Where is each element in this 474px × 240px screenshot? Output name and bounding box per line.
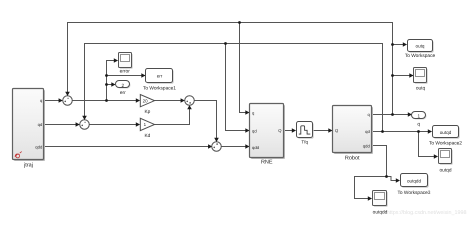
sum1 <box>63 96 73 106</box>
junction error to workspace branch <box>105 74 108 77</box>
arrow into Robot <box>328 128 332 133</box>
wire qd feedback loop <box>85 44 383 132</box>
svg-text:outqd: outqd <box>440 130 452 135</box>
arrow into gain Kd <box>136 122 140 127</box>
outport 1 q oval <box>412 112 427 128</box>
wire error tap vertical <box>107 61 118 101</box>
svg-text:To Workspace3: To Workspace3 <box>398 190 431 196</box>
svg-text:err: err <box>120 91 126 96</box>
svg-text:q: q <box>417 123 420 128</box>
Tfq pulse icon <box>299 126 311 134</box>
svg-text:error: error <box>120 70 131 75</box>
wire Robot qd out to To Workspace2 <box>372 131 432 133</box>
wire sum4 out to RNE qdd <box>221 146 249 148</box>
arrow into sum3 left <box>181 98 185 103</box>
junction robot qdd output <box>385 175 388 178</box>
sum4 <box>212 142 222 152</box>
arrow into gain Kp <box>136 98 140 103</box>
junction error to outport branch <box>105 83 108 86</box>
svg-text:Kp: Kp <box>144 109 150 115</box>
junction q-feedback to outq workspace branch <box>391 43 394 46</box>
arrow into RNE qdd <box>245 144 249 149</box>
arrow into outqd scope <box>434 154 438 159</box>
outqd scope <box>439 149 453 174</box>
svg-text:outqdd: outqdd <box>373 210 388 216</box>
svg-text:jtraj: jtraj <box>23 162 33 168</box>
wire branch to outq To Workspace <box>393 44 407 46</box>
svg-text:2: 2 <box>121 83 124 88</box>
svg-text:qd: qd <box>38 122 43 127</box>
gain Kp <box>140 95 154 116</box>
svg-text:https://blog.csdn.net/weixin_1: https://blog.csdn.net/weixin_1998 <box>387 210 467 216</box>
arrow into sum2 left <box>76 122 80 127</box>
Robot block <box>333 106 372 153</box>
arrow into sum2 top <box>82 116 87 120</box>
arrow into error scope <box>114 58 118 63</box>
sum3 <box>185 96 195 106</box>
outport 2 err oval <box>116 81 131 96</box>
Tfq block <box>298 123 314 139</box>
svg-text:Robot: Robot <box>345 156 360 162</box>
svg-text:qdd: qdd <box>35 145 43 150</box>
wire sum3 out to sum4 top <box>194 101 216 142</box>
wire jtraj qdd to sum4 <box>44 146 212 148</box>
junction q-feedback to RNE q branch <box>238 21 241 24</box>
arrow into To Workspace3 <box>396 178 400 183</box>
svg-text:err: err <box>157 74 163 79</box>
svg-text:qd: qd <box>365 129 370 134</box>
arrow into sum1 left <box>59 98 63 103</box>
wire sum2 out to Kd <box>89 124 139 126</box>
svg-text:To Workspace1: To Workspace1 <box>143 85 176 91</box>
arrow into outport 1 <box>408 112 412 117</box>
Robot block shadow <box>334 107 373 154</box>
arrow into Tfq <box>292 128 296 133</box>
svg-text:20: 20 <box>143 98 148 103</box>
svg-text:Tfq: Tfq <box>301 140 308 145</box>
junction qd to outqd scope branch <box>417 130 420 133</box>
jtraj block <box>13 89 44 160</box>
To Workspace1 block <box>147 70 174 84</box>
gain Kd <box>140 118 154 139</box>
arrowheads <box>59 42 438 201</box>
sum2 <box>80 120 90 130</box>
svg-text:qdd: qdd <box>363 144 371 149</box>
RNE block <box>250 104 284 158</box>
wire branch feedback qd to RNE qd input <box>226 44 250 131</box>
wire Kd out to sum3 bottom <box>155 106 190 125</box>
svg-text:outqdd: outqdd <box>407 179 421 184</box>
arrow into RNE q <box>245 110 249 115</box>
wire Kp out to sum3 <box>155 100 185 102</box>
junction robot q output <box>391 113 394 116</box>
svg-text:outqd: outqd <box>439 168 451 174</box>
jtraj red logo <box>15 152 22 158</box>
svg-text:Kd: Kd <box>144 133 150 139</box>
wire error to outport err <box>107 84 115 86</box>
arrow into sum4 left <box>208 144 212 149</box>
junction error signal tap <box>105 99 108 102</box>
wire jtraj qd to sum2 <box>44 124 79 126</box>
wire RNE Q out to Tfq <box>284 130 296 132</box>
wire qdd to To Workspace3 <box>387 177 400 181</box>
outqd To Workspace2 block <box>434 127 460 139</box>
wire q feedback top loop <box>68 23 393 115</box>
svg-text:1: 1 <box>417 114 420 119</box>
outq To Workspace block <box>409 41 434 53</box>
arrow into outq scope <box>409 73 413 78</box>
jtraj block shadow <box>14 90 45 161</box>
wire branch to outq scope <box>393 75 414 77</box>
arrow into RNE qd <box>245 128 249 133</box>
svg-text:outq: outq <box>416 86 426 92</box>
outqdd scope <box>373 191 388 216</box>
junction q-feedback to outq scope branch <box>391 74 394 77</box>
wire sum1 out to Kp <box>72 100 139 102</box>
svg-text:outq: outq <box>416 44 425 49</box>
RNE block shadow <box>251 105 285 159</box>
junction qd-feedback to RNE qd branch <box>224 42 227 45</box>
svg-text:To Workspace2: To Workspace2 <box>429 141 462 147</box>
arrow into sum4 top <box>214 138 219 142</box>
svg-text:qd: qd <box>252 129 257 134</box>
error scope <box>119 53 133 75</box>
arrow into To Workspace2 <box>428 129 432 134</box>
wire qdd loop to outqdd scope <box>355 177 387 199</box>
wire jtraj q to sum1 <box>44 100 62 102</box>
outq scope <box>414 68 428 92</box>
outqdd To Workspace3 block <box>402 175 429 188</box>
arrow into outqdd scope <box>368 196 372 201</box>
arrow into To Workspace1 <box>141 73 145 78</box>
arrow into sum1 top <box>65 92 70 96</box>
arrow into outport err <box>111 82 115 87</box>
svg-text:RNE: RNE <box>261 160 273 166</box>
svg-text:qdd: qdd <box>252 145 260 150</box>
wire Robot q out to outport 1 <box>372 114 412 116</box>
wire qd branch down to outqd scope <box>419 132 438 157</box>
wire error to To Workspace1 <box>107 75 146 77</box>
junction robot qd output <box>381 130 384 133</box>
svg-text:To Workspace: To Workspace <box>405 53 436 59</box>
arrow into outq workspace <box>403 42 407 47</box>
arrow into sum3 bottom <box>187 105 192 109</box>
wire Robot qdd out down <box>372 146 387 177</box>
wire Tfq to Robot <box>313 130 332 132</box>
wire branch feedback q to RNE q input <box>240 23 250 113</box>
